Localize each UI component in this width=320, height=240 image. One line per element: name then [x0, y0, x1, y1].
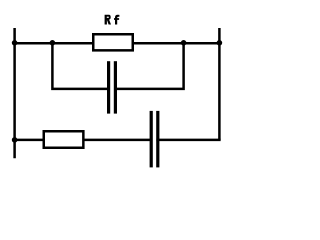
junction dot: top-left node — [12, 40, 18, 46]
resistor Rf body — [93, 34, 133, 50]
capacitor C1 right plate — [114, 61, 117, 113]
capacitor C2 right plate — [156, 111, 159, 167]
junction dot: upper branch right node — [181, 40, 187, 46]
capacitor C2 left plate — [150, 111, 153, 167]
capacitor C1 (upper, between plates gap mask) — [110, 84, 114, 94]
label Rf: letter f — [114, 15, 119, 25]
wire: bottom horizontal bus — [13, 139, 220, 142]
label Rf: letter R — [105, 15, 111, 25]
junction dot: upper branch left node — [50, 40, 56, 46]
junction dot: top-right node — [217, 40, 223, 46]
resistor R1 body (bottom) — [44, 131, 84, 148]
capacitor C2 (lower, between plates gap mask) — [152, 135, 156, 145]
wire: right vertical rail with top stub — [218, 28, 221, 140]
capacitor C1 left plate — [107, 61, 110, 113]
wire: top horizontal bus — [13, 42, 220, 45]
wire: left vertical rail with top and bottom stubs — [13, 28, 16, 158]
junction dot: bottom-left node — [12, 137, 18, 143]
wire: upper capacitor branch (left drop, horizontal, right drop) — [52, 43, 183, 89]
